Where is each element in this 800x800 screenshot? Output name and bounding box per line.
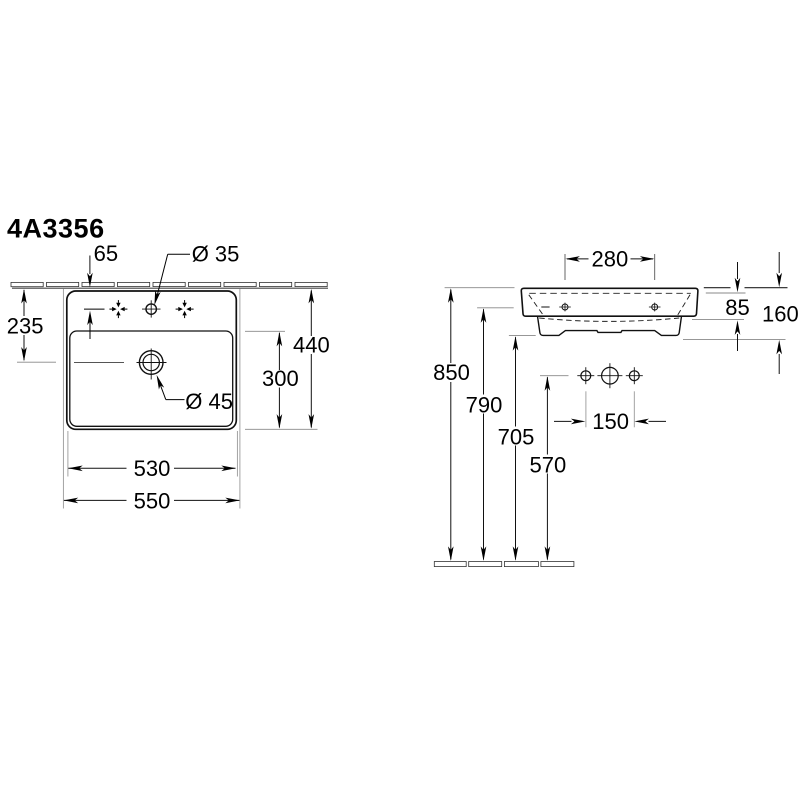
- dimension 280: [567, 258, 589, 260]
- hidden bowl slope right (dashed): [678, 295, 690, 315]
- svg-text:850: 850: [433, 360, 470, 385]
- dimension 440: [310, 291, 312, 337]
- dimension 790: [483, 309, 485, 394]
- dimension 550: [64, 499, 127, 501]
- basin inner bowl outline (top view): [70, 331, 233, 426]
- extension line 85 top: [706, 292, 746, 294]
- drain centerline (top view): [74, 362, 124, 364]
- svg-text:85: 85: [725, 295, 749, 320]
- extension lines for 530: [67, 431, 69, 477]
- dimension 570: [546, 377, 548, 454]
- basin rim band outline (side view): [521, 288, 698, 316]
- supply hole left (side view): [577, 367, 594, 384]
- extension line 160 bottom: [683, 338, 786, 340]
- wall face line (top view): [12, 287, 328, 289]
- svg-text:440: 440: [293, 333, 330, 358]
- drain circles (top view): [137, 349, 167, 380]
- mounting bracket outline (side view): [538, 317, 682, 336]
- dimension 160: [778, 252, 780, 273]
- svg-text:550: 550: [134, 488, 171, 513]
- svg-text:300: 300: [262, 366, 299, 391]
- svg-text:150: 150: [592, 409, 629, 434]
- mounting hole right (side view): [649, 303, 661, 312]
- svg-text:235: 235: [7, 313, 44, 338]
- drain pipe hole (side view): [597, 363, 622, 388]
- extension line 570 (supply axis): [540, 375, 569, 377]
- svg-text:530: 530: [134, 456, 171, 481]
- mounting hole left (side view): [559, 303, 571, 312]
- dimension 235: [23, 290, 25, 316]
- extension line 790 (hole axis): [477, 307, 514, 309]
- svg-text:Ø 35: Ø 35: [192, 241, 240, 266]
- tap hole reference line + small up arrow: [84, 308, 105, 310]
- svg-text:790: 790: [466, 393, 503, 418]
- tap hole circle (top view): [142, 300, 161, 317]
- extension line 850 top: [445, 287, 515, 289]
- dimension 85: [737, 262, 739, 279]
- extension line 705 (bracket bottom): [509, 335, 536, 337]
- basin outer outline (top view): [67, 291, 237, 429]
- extension line 160 top right: [704, 287, 731, 289]
- floor tile band: [434, 562, 574, 567]
- leader and label Ø 45: [158, 380, 166, 400]
- extension lines for 550: [62, 289, 64, 509]
- hidden rim back edge (dashed): [529, 292, 691, 294]
- svg-text:4A3356: 4A3356: [7, 214, 105, 244]
- hidden bowl bottom (dashed arc): [539, 318, 679, 321]
- extension line for 235 at drain centerline: [17, 361, 56, 363]
- dimension 530: [68, 467, 126, 469]
- optional tap hole cross left: [109, 300, 127, 318]
- svg-text:280: 280: [592, 247, 629, 272]
- svg-text:160: 160: [762, 301, 799, 326]
- leader and label Ø 35: [168, 253, 190, 255]
- extension line 85 bottom: [692, 319, 744, 321]
- dimension 705: [515, 337, 517, 426]
- dimension 150: [554, 420, 572, 422]
- optional tap hole cross right: [176, 300, 194, 318]
- svg-text:570: 570: [530, 452, 567, 477]
- dimension 300: [278, 333, 280, 370]
- hole centreline dash (side view): [541, 306, 549, 308]
- svg-text:705: 705: [498, 424, 535, 449]
- extension lines below supply holes: [585, 391, 587, 427]
- dimension 65: [89, 256, 91, 275]
- wall tile band (top view): [11, 282, 327, 286]
- svg-text:65: 65: [94, 241, 118, 266]
- hidden bowl slope left (dashed): [529, 295, 544, 315]
- extension lines for 280: [564, 254, 566, 280]
- extension line bottom of 440/300 (front edge): [245, 428, 318, 430]
- svg-text:Ø 45: Ø 45: [185, 389, 233, 414]
- extension line top of 300 (inner bowl edge): [245, 330, 285, 332]
- dimension 850: [450, 290, 452, 364]
- supply hole right (side view): [626, 367, 643, 384]
